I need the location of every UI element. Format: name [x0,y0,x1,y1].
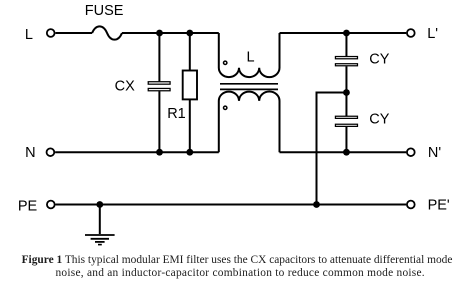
terminal N [47,148,55,156]
junction node PE/ground [96,201,103,208]
svg-text:N': N' [428,145,441,161]
terminal PE' [407,201,415,209]
choke L bottom winding [219,92,280,153]
capacitor CY2 [335,116,357,118]
wire N line [55,151,219,153]
terminal L' [407,29,415,37]
wire PE line [56,204,407,206]
junction node L/CY1 [343,30,350,37]
svg-text:FUSE: FUSE [85,3,124,19]
wire CY1 bottom lead [345,66,347,92]
terminal PE [47,201,55,209]
wire L terminal to fuse [55,32,92,34]
wire choke to L' [280,32,407,34]
terminal L [47,29,55,37]
choke polarity dot bottom [224,106,227,109]
junction node N/R1 [186,149,193,156]
terminal N' [407,148,415,156]
svg-text:N: N [25,145,35,161]
resistor R1 [183,71,197,100]
svg-text:PE: PE [18,198,38,214]
capacitor CX [148,82,170,84]
svg-text:L': L' [427,26,438,42]
wire R1 bottom lead [189,99,191,152]
fuse F1 [92,26,122,39]
capacitor CY1 [335,57,357,59]
wire R1 top lead [189,33,191,71]
svg-text:R1: R1 [167,106,186,122]
wire fuse to choke [122,32,219,34]
choke polarity dot top [224,61,227,64]
svg-text:PE': PE' [428,198,450,214]
wire CY mid to PE drop [317,93,347,205]
junction node L/R1 [186,30,193,37]
junction node L/CX [156,30,163,37]
svg-text:CX: CX [115,78,135,94]
junction node N/CY2 [343,149,350,156]
svg-text:CY: CY [369,112,389,128]
choke core lines [220,83,278,85]
junction node PE/CY mid drop [313,201,320,208]
junction node CY mid [343,89,350,96]
figure caption [0,254,474,280]
junction node N/CX [156,149,163,156]
wire CX top lead [158,33,160,81]
wire CX bottom lead [158,91,160,152]
ground symbol [85,234,115,236]
wire CY1 top lead [345,33,347,57]
wire CY2 top lead [345,93,347,117]
wire choke to N' [280,151,407,153]
choke L top winding [219,33,280,77]
svg-text:L: L [25,27,33,43]
svg-text:L: L [247,50,255,66]
ground lead wire [99,205,101,235]
svg-text:CY: CY [369,52,389,68]
wire CY2 bottom lead [345,127,347,152]
